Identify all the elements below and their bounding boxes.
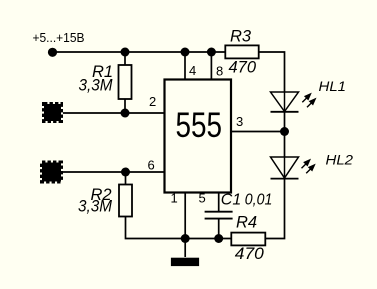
wire pad1 to node xyxy=(63,112,165,114)
svg-text:R3: R3 xyxy=(230,27,252,45)
wire pin1 xyxy=(184,193,186,239)
svg-text:R4: R4 xyxy=(236,214,257,232)
svg-text:3: 3 xyxy=(236,114,243,129)
resistor R4 xyxy=(231,233,265,246)
svg-text:5: 5 xyxy=(199,191,206,206)
svg-text:470: 470 xyxy=(229,59,257,77)
node junction pin6 xyxy=(121,168,130,177)
svg-text:HL1: HL1 xyxy=(319,79,347,94)
wire C1 bottom lead xyxy=(218,219,220,239)
wire LED2 to R4 xyxy=(266,179,285,239)
svg-text:8: 8 xyxy=(216,64,223,79)
svg-text:555: 555 xyxy=(176,105,223,145)
wire pin8 xyxy=(210,52,212,80)
node junction pin2 xyxy=(121,109,130,118)
terminal dot supply xyxy=(48,48,57,57)
svg-text:3,3М: 3,3М xyxy=(78,197,112,215)
svg-text:1: 1 xyxy=(171,191,178,206)
node junction gnd xyxy=(181,234,190,243)
svg-text:C1: C1 xyxy=(221,191,241,208)
wire R2 bottom lead xyxy=(126,217,186,239)
wire LED1 to node xyxy=(284,112,286,157)
op IC 555 U1 xyxy=(165,80,232,193)
svg-text:3,3М: 3,3М xyxy=(79,77,113,95)
LED HL2 xyxy=(271,157,316,179)
wire to ground xyxy=(184,239,186,258)
ground xyxy=(171,258,199,266)
wire R1 bottom lead xyxy=(124,99,126,113)
wire pin5 / C1 top lead xyxy=(218,193,220,212)
wire R1 top lead xyxy=(124,52,126,66)
resistor R3 xyxy=(225,45,258,58)
wire pad2 to node xyxy=(63,171,165,173)
wire R2 top lead xyxy=(125,172,127,185)
LED HL1 xyxy=(271,92,317,112)
node junction C1 xyxy=(214,234,223,243)
wire bottom rail xyxy=(185,238,231,240)
node junction pin4 xyxy=(181,48,190,57)
node junction LED xyxy=(280,127,289,136)
wire R3 to LED1 xyxy=(259,52,285,92)
svg-text:HL2: HL2 xyxy=(326,153,354,168)
node junction R1 top xyxy=(121,48,130,57)
wire pin4 xyxy=(184,52,186,80)
wire top rail xyxy=(53,51,225,53)
capacitor C1 xyxy=(205,212,233,219)
resistor R2 xyxy=(119,185,132,217)
touch pad E2 xyxy=(42,163,61,182)
touch pad E1 xyxy=(44,104,61,121)
resistor R1 xyxy=(119,65,132,99)
svg-text:0,01: 0,01 xyxy=(245,192,272,209)
svg-text:6: 6 xyxy=(148,158,155,173)
wire pin3 xyxy=(231,131,285,133)
node junction pin8 xyxy=(207,48,216,57)
svg-text:2: 2 xyxy=(149,94,156,109)
svg-text:470: 470 xyxy=(235,245,265,263)
svg-text:4: 4 xyxy=(189,63,196,78)
svg-text:+5...+15В: +5...+15В xyxy=(33,30,85,45)
